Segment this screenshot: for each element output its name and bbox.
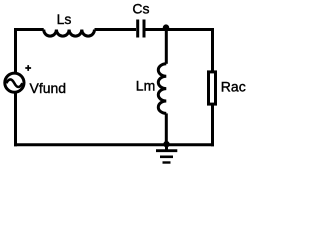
ground stub xyxy=(165,145,168,151)
capacitor Cs plate right xyxy=(143,20,146,38)
svg-text:Rac: Rac xyxy=(221,79,246,95)
ground bar 3 xyxy=(163,161,171,163)
wire middle branch upper xyxy=(165,28,168,64)
wire right vertical lower xyxy=(211,104,214,146)
wire between Cs and top-right corner xyxy=(146,28,213,31)
wire left vertical lower xyxy=(14,92,17,146)
wire right vertical upper xyxy=(211,28,214,72)
svg-text:Vfund: Vfund xyxy=(30,80,67,96)
svg-text:Cs: Cs xyxy=(132,1,149,17)
capacitor Cs plate left xyxy=(136,20,139,38)
svg-text:Lm: Lm xyxy=(136,78,155,94)
source Vfund sine wave xyxy=(6,79,22,87)
resistor Rac xyxy=(209,72,216,104)
inductor Ls xyxy=(44,30,95,37)
wire between Ls and Cs xyxy=(95,28,137,31)
node junction dot top xyxy=(163,24,169,30)
ground bar 1 xyxy=(156,149,177,152)
svg-text:Ls: Ls xyxy=(57,11,72,27)
wire bottom horizontal xyxy=(14,143,214,146)
wire middle branch lower xyxy=(165,113,168,144)
wire left vertical upper xyxy=(14,28,17,74)
wire top horizontal left of Ls xyxy=(14,28,44,31)
source Vfund plus sign xyxy=(25,65,31,71)
inductor Lm xyxy=(158,64,166,114)
source Vfund circle xyxy=(5,73,24,92)
node junction dot bottom xyxy=(163,141,169,147)
ground bar 2 xyxy=(160,156,173,159)
